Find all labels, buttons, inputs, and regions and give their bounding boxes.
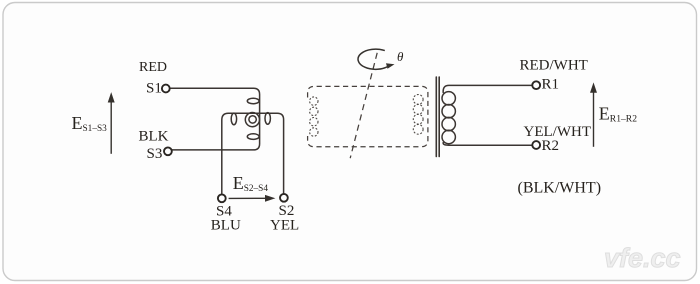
- svg-text:RED: RED: [139, 60, 167, 75]
- svg-text:S2: S2: [279, 203, 295, 219]
- svg-text:(BLK/WHT): (BLK/WHT): [518, 179, 602, 196]
- svg-text:RED/WHT: RED/WHT: [520, 57, 588, 73]
- svg-text:θ: θ: [397, 49, 404, 64]
- svg-text:R2: R2: [542, 138, 560, 154]
- svg-text:BLU: BLU: [211, 218, 241, 234]
- svg-text:vfe.cc: vfe.cc: [604, 243, 681, 273]
- svg-text:YEL: YEL: [270, 218, 299, 234]
- svg-text:BLK: BLK: [139, 128, 169, 144]
- svg-text:S3: S3: [147, 146, 163, 162]
- svg-text:R1: R1: [542, 77, 560, 93]
- svg-text:S1: S1: [146, 81, 162, 97]
